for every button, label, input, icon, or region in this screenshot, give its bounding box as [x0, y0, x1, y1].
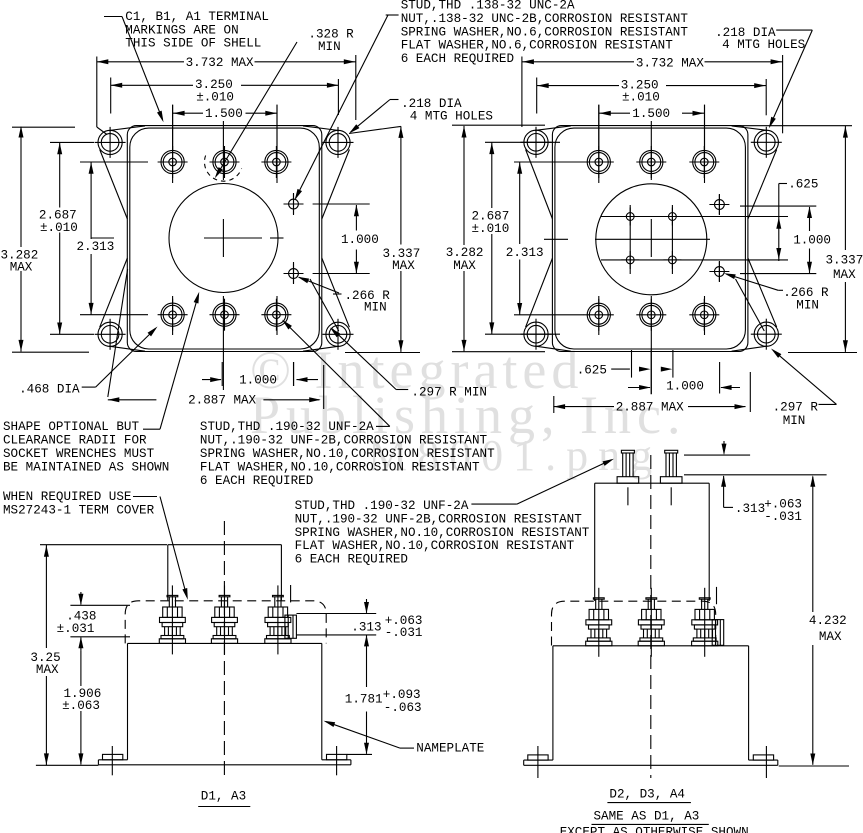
view2 ear gusset lines top-left	[535, 126, 571, 130]
view4 stud top extension lines	[684, 454, 750, 456]
watermark: Integrated Publishing	[250, 340, 687, 480]
svg-text:CLEARANCE RADII FOR: CLEARANCE RADII FOR	[3, 434, 147, 448]
view2 side hole centerlines	[718, 194, 720, 215]
svg-text:MIN: MIN	[783, 414, 806, 428]
svg-text:D1, A3: D1, A3	[201, 790, 246, 804]
svg-text:.297 R MIN: .297 R MIN	[411, 385, 487, 399]
svg-text:EXCEPT AS OTHERWISE SHOWN: EXCEPT AS OTHERWISE SHOWN	[560, 825, 749, 833]
svg-text:FLAT WASHER,NO.6,CORROSION RES: FLAT WASHER,NO.6,CORROSION RESISTANT	[401, 39, 674, 53]
svg-text:D2, D3, A4: D2, D3, A4	[609, 787, 685, 801]
svg-text:MAX: MAX	[392, 259, 415, 273]
svg-text:2.313: 2.313	[506, 246, 544, 260]
view D1/A3 foot centerlines	[111, 746, 113, 775]
svg-text:-.063: -.063	[384, 701, 422, 715]
dimension 2.313 view1	[90, 162, 92, 239]
view2 dimension 1.500	[598, 105, 600, 150]
dimension 3.337 MAX view1	[349, 126, 401, 133]
view2 hole grid centerlines	[629, 205, 631, 274]
svg-text:.313: .313	[735, 502, 765, 516]
svg-text:WHEN REQUIRED USE: WHEN REQUIRED USE	[3, 490, 131, 504]
view2 terminal hole grid upper-left	[621, 208, 639, 226]
svg-text:1.000: 1.000	[793, 234, 831, 248]
view2 central cover circle	[596, 184, 707, 295]
view4 right mounting foot	[753, 755, 773, 760]
view2 side hole upper-right	[709, 195, 729, 215]
svg-text:1.500: 1.500	[632, 107, 670, 121]
view4 left mounting foot	[528, 755, 548, 760]
svg-text:.313: .313	[351, 621, 381, 635]
svg-text:4 MTG HOLES: 4 MTG HOLES	[410, 110, 493, 124]
view2 terminal stud top-middle	[636, 146, 666, 178]
view2 dimension 3.732 MAX	[521, 57, 523, 128]
svg-text:±.010: ±.010	[196, 91, 234, 105]
svg-text:±.010: ±.010	[40, 221, 78, 235]
svg-text:3.337: 3.337	[826, 253, 863, 267]
view2 dimension 3.337 MAX	[736, 125, 852, 127]
view4 auxiliary bushing at right stud	[712, 620, 724, 646]
view2 mounting ear bottom-left	[521, 319, 552, 350]
view2 dimension .625 right side	[779, 183, 787, 185]
svg-text:STUD,THD .190-32 UNF-2A: STUD,THD .190-32 UNF-2A	[200, 420, 374, 434]
baseline extension view3	[36, 764, 99, 766]
view2 stud column centerlines	[598, 105, 600, 183]
svg-text:-.031: -.031	[764, 510, 802, 524]
view 2 body inner outline	[555, 128, 746, 349]
ear gusset lines bottom-right	[303, 346, 339, 351]
svg-text:1.000: 1.000	[666, 379, 704, 393]
view D2/D3/A4: tall cover rectangle	[595, 482, 710, 484]
leader .266 R MIN view1	[333, 293, 342, 295]
view 1 body inner outline	[130, 128, 319, 349]
leader from .218 DIA view1 to ear	[390, 99, 399, 101]
central cover circle	[169, 184, 278, 293]
view2 dimension 1.000 bottom	[628, 387, 650, 389]
wrench clearance dashed arc at top-middle stud	[204, 156, 241, 182]
view 1 plan: case body outer shell outline	[127, 126, 321, 352]
view2 dimension .625 bottom	[611, 368, 630, 370]
view4 vertical centerline dashed	[650, 455, 652, 778]
small locating hole upper-right	[284, 194, 304, 214]
svg-text:SPRING WASHER,NO.6,CORROSION R: SPRING WASHER,NO.6,CORROSION RESISTANT	[401, 25, 689, 39]
extension lines to 1.000 side dim	[313, 203, 370, 205]
view4 dashed term cover outline	[552, 601, 716, 645]
svg-text:6 EACH REQUIRED: 6 EACH REQUIRED	[401, 52, 514, 66]
leader from term cover note	[133, 496, 157, 498]
leader from .138 note to small hole	[386, 14, 399, 16]
view D1/A3: terminal cover rectangle	[168, 544, 282, 546]
leader from right stud note to view4 stud	[471, 503, 517, 505]
svg-text:2.313: 2.313	[77, 240, 115, 254]
dimension 2.687 +/-.010 view1	[50, 141, 94, 143]
terminal stud C1 top-right	[261, 146, 291, 178]
ear gusset lines bottom-left	[109, 346, 145, 351]
svg-text:SOCKET WRENCHES MUST: SOCKET WRENCHES MUST	[3, 447, 155, 461]
dimension 3.282 MAX view1	[12, 126, 75, 128]
svg-text:1.781: 1.781	[345, 693, 383, 707]
svg-text:±.063: ±.063	[62, 699, 100, 713]
svg-text:MAX: MAX	[833, 268, 856, 282]
view2 terminal hole grid lower-left	[621, 251, 639, 269]
svg-text:STUD,THD .190-32 UNF-2A: STUD,THD .190-32 UNF-2A	[295, 499, 469, 513]
feed-through stud left on cover top	[617, 450, 639, 505]
svg-text:3.732 MAX: 3.732 MAX	[186, 56, 254, 70]
leader NAMEPLATE	[400, 747, 414, 749]
leader from SHAPE OPTIONAL note to circle	[143, 428, 160, 430]
view2 terminal stud bottom-middle	[636, 299, 666, 331]
view2 horizontal centerline	[544, 238, 568, 240]
svg-text:1.000: 1.000	[239, 374, 277, 388]
slanted line into bottom-right ear	[310, 279, 339, 331]
svg-text:MARKINGS ARE ON: MARKINGS ARE ON	[125, 23, 238, 37]
leader from center stud note to view1 stud	[376, 425, 390, 427]
svg-text:SPRING WASHER,NO.10,CORROSION: SPRING WASHER,NO.10,CORROSION RESISTANT	[295, 526, 590, 540]
dimension 2.887 MAX bottom view1	[108, 269, 128, 397]
view2 ear gusset lines top-right	[732, 126, 768, 130]
view2 side hole lower-right	[709, 262, 729, 282]
view2 dimension 2.313	[514, 161, 584, 163]
mounting ear top-left	[95, 127, 126, 158]
svg-text:-.031: -.031	[385, 626, 423, 640]
svg-text:.468 DIA: .468 DIA	[19, 383, 80, 397]
view2 mounting ear top-right	[751, 127, 782, 158]
svg-text:MAX: MAX	[453, 259, 476, 273]
dimension 1.500 view1	[172, 105, 174, 150]
dimension 3.732 MAX view1	[96, 57, 98, 128]
terminal stud bottom-left	[158, 299, 188, 331]
svg-text:SPRING WASHER,NO.10,CORROSION: SPRING WASHER,NO.10,CORROSION RESISTANT	[200, 447, 495, 461]
svg-text:2.887 MAX: 2.887 MAX	[188, 394, 256, 408]
dimension 1.906 +/-.063 view3	[80, 651, 82, 686]
terminal stud B1 top-middle	[210, 146, 240, 178]
terminal stud A1 top-left	[158, 146, 188, 178]
view4 dimension 4.232 MAX	[812, 477, 814, 613]
view D1/A3 vertical centerline dashed	[223, 521, 225, 776]
svg-text:6 EACH REQUIRED: 6 EACH REQUIRED	[200, 474, 313, 488]
view D1/A3 dashed term cover outline	[125, 601, 326, 644]
svg-text:±.010: ±.010	[622, 91, 660, 105]
view2 terminal hole grid upper-right	[663, 208, 681, 226]
small hole column centerline view1	[293, 193, 295, 215]
view 2 plan: case body outer shell outline	[552, 126, 748, 352]
view4 stud stack right	[692, 588, 718, 657]
svg-text:MIN: MIN	[796, 298, 819, 312]
svg-text:MIN: MIN	[318, 40, 341, 54]
svg-text:1.000: 1.000	[341, 233, 379, 247]
view D1/A3 stud stack middle	[211, 585, 237, 654]
view2 leader .297 R MIN	[819, 403, 837, 405]
feed-through stud right on cover top	[660, 450, 682, 505]
svg-text:4.232: 4.232	[809, 614, 847, 628]
svg-text:BE MAINTAINED AS SHOWN: BE MAINTAINED AS SHOWN	[3, 460, 169, 474]
view D1/A3 body	[128, 642, 322, 644]
view2 dimension 2.687 +/-.010	[485, 141, 560, 143]
small locating hole lower-right	[284, 264, 304, 284]
svg-text:3.732 MAX: 3.732 MAX	[636, 56, 704, 70]
view2 mounting ear top-left	[521, 127, 552, 158]
view2 hole column extensions to bottom dims	[631, 350, 633, 378]
svg-text:NUT,.138-32 UNC-2B,CORROSION R: NUT,.138-32 UNC-2B,CORROSION RESISTANT	[401, 12, 689, 26]
view2 terminal stud top-left	[584, 146, 614, 178]
dimension 3.25 MAX view3	[40, 544, 167, 546]
view4 foot centerlines	[537, 746, 539, 778]
mounting ear bottom-left	[95, 319, 126, 350]
dimension 1.000 right side view1	[355, 205, 357, 231]
svg-text:6 EACH REQUIRED: 6 EACH REQUIRED	[295, 553, 408, 567]
svg-text:MIN: MIN	[364, 301, 387, 315]
view2 terminal stud top-right	[689, 146, 719, 178]
svg-text:±.010: ±.010	[472, 222, 510, 236]
vertical centerline view1	[222, 121, 224, 180]
ear gusset lines top-right	[303, 126, 339, 131]
view2 terminal stud bottom-right	[689, 299, 719, 331]
view2 slanted line into bottom-right ear	[736, 279, 765, 331]
mounting ear bottom-right	[323, 319, 354, 350]
svg-text:MS27243-1 TERM COVER: MS27243-1 TERM COVER	[3, 503, 155, 517]
view2 mounting ear bottom-right	[751, 319, 782, 350]
ear gusset lines top-left	[109, 126, 145, 131]
view2 vertical centerline	[650, 121, 652, 180]
svg-text:SHAPE OPTIONAL BUT: SHAPE OPTIONAL BUT	[3, 420, 139, 434]
svg-text:.625: .625	[788, 178, 818, 192]
svg-text:±.031: ±.031	[57, 622, 95, 636]
dimension .313 +.063/-.031 view3	[297, 613, 377, 615]
view4 stud stack left	[586, 588, 612, 657]
svg-text:MAX: MAX	[36, 663, 59, 677]
view2 dimension 3.282 MAX	[452, 124, 545, 126]
svg-text:1.500: 1.500	[205, 107, 243, 121]
view2 ear gusset lines bottom-right	[732, 346, 768, 351]
view D1/A3 stud stack left	[159, 585, 185, 654]
view4 base line	[524, 764, 778, 766]
view2 dimension 2.887 MAX bottom	[553, 396, 555, 413]
view D1/A3 right mounting foot	[327, 754, 347, 759]
leader from .328 R MIN to clearance arc	[216, 42, 297, 176]
svg-text:4 MTG HOLES: 4 MTG HOLES	[722, 38, 805, 52]
view2 dimension 1.000 right side	[809, 207, 811, 231]
dimension 3.250 +/-.010 view1	[110, 78, 112, 114]
svg-text:NUT,.190-32 UNF-2B,CORROSION R: NUT,.190-32 UNF-2B,CORROSION RESISTANT	[295, 512, 583, 526]
mounting ear top-right	[323, 127, 354, 158]
view D1/A3 base line	[98, 764, 351, 766]
svg-text:MAX: MAX	[10, 261, 33, 275]
svg-text:NUT,.190-32 UNF-2B,CORROSION R: NUT,.190-32 UNF-2B,CORROSION RESISTANT	[200, 434, 488, 448]
dimension .438 +/-.031 view3	[70, 604, 130, 606]
horizontal centerline view1	[91, 237, 114, 239]
svg-text:.297 R: .297 R	[773, 401, 819, 415]
view4 stud stack middle	[638, 588, 664, 657]
terminal stud bottom-middle	[210, 299, 240, 331]
view2 terminal hole grid lower-right	[663, 251, 681, 269]
view D1/A3 stud stack right	[265, 585, 291, 654]
view D1/A3 left mounting foot	[103, 754, 123, 759]
leader .297 R MIN view1	[396, 389, 408, 391]
view2 extensions to right 1.000 dim	[740, 205, 816, 207]
dimension 1.000 bottom view1	[221, 362, 223, 386]
svg-text:MAX: MAX	[819, 630, 842, 644]
svg-text:.625: .625	[577, 363, 607, 377]
view2 ear gusset lines bottom-left	[535, 346, 571, 351]
svg-text:STUD,THD .138-32 UNC-2A: STUD,THD .138-32 UNC-2A	[401, 0, 575, 13]
stud column centerlines view1	[172, 105, 174, 183]
svg-text:FLAT WASHER,NO.10,CORROSION RE: FLAT WASHER,NO.10,CORROSION RESISTANT	[200, 460, 480, 474]
svg-text:2.887 MAX: 2.887 MAX	[616, 401, 684, 415]
view2 leader .218 DIA to ear	[776, 29, 812, 31]
dimension 1.781 +.093/-.063 view3	[366, 649, 368, 687]
view2 dimension 3.250 +/-.010	[536, 78, 538, 114]
view D1/A3 auxiliary bushing at right stud	[285, 615, 297, 638]
terminal stud bottom-right	[261, 299, 291, 331]
svg-text:NAMEPLATE: NAMEPLATE	[416, 741, 484, 755]
svg-text:THIS SIDE OF SHELL: THIS SIDE OF SHELL	[125, 37, 261, 51]
view2 leader .266 R MIN	[778, 289, 783, 291]
svg-text:FLAT WASHER,NO.10,CORROSION RE: FLAT WASHER,NO.10,CORROSION RESISTANT	[295, 539, 575, 553]
svg-text:SAME AS D1, A3: SAME AS D1, A3	[594, 809, 700, 823]
view2 terminal stud bottom-left	[584, 299, 614, 331]
stud row centerline extensions view1	[80, 161, 148, 163]
leader from C1 note to shell top edge	[104, 16, 122, 18]
view4 body	[553, 645, 749, 647]
svg-text:+.093: +.093	[383, 688, 421, 702]
svg-text:C1, B1, A1 TERMINAL: C1, B1, A1 TERMINAL	[125, 10, 269, 24]
view4 dimension .313 +.063/-.031	[723, 441, 725, 454]
